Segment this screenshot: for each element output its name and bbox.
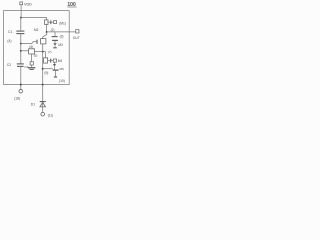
capacitor struct A lead bbox=[54, 32, 56, 36]
background bbox=[0, 0, 85, 120]
wire M4 down bbox=[31, 54, 33, 62]
capacitor C1 plate1 bbox=[16, 30, 24, 32]
svg-text:(11): (11) bbox=[48, 114, 53, 118]
svg-text:(M1): (M1) bbox=[59, 22, 66, 26]
terminal VDD square bbox=[20, 2, 23, 5]
wire M1 drain down bbox=[46, 25, 48, 33]
terminal circle bottom bbox=[41, 112, 45, 116]
wire M3 gate bbox=[21, 42, 37, 44]
plate B bbox=[53, 69, 59, 71]
wire left rail upper bbox=[20, 18, 22, 31]
minibar A bbox=[53, 47, 57, 49]
wire VDD lead bbox=[20, 5, 22, 18]
svg-text:(6): (6) bbox=[29, 45, 33, 49]
transistor M3 box bbox=[41, 39, 46, 44]
svg-text:(7): (7) bbox=[48, 50, 52, 54]
transistor M5 box bbox=[44, 58, 48, 63]
plate A2 bbox=[52, 39, 58, 41]
box M5b bbox=[53, 59, 56, 62]
wire left rail lower bbox=[20, 66, 22, 89]
svg-text:M4: M4 bbox=[58, 59, 63, 63]
wire B3 bbox=[54, 70, 56, 76]
transistor M4 box bbox=[29, 49, 35, 54]
diode D1 cathode bar bbox=[40, 101, 46, 103]
svg-text:VDD: VDD bbox=[24, 3, 32, 7]
arrow A bbox=[53, 43, 56, 46]
wire diode bottom bbox=[42, 107, 44, 113]
terminal OUT square bbox=[76, 30, 79, 33]
main vertical bbox=[42, 44, 44, 85]
svg-text:C2: C2 bbox=[24, 65, 28, 69]
ground bars bbox=[28, 67, 35, 69]
wire M5 gate leads bbox=[48, 60, 51, 62]
plate A1 bbox=[52, 36, 58, 38]
svg-text:M5: M5 bbox=[60, 67, 65, 71]
node top-rail junction bbox=[20, 17, 22, 19]
wire B2 bbox=[54, 67, 56, 70]
svg-text:(2): (2) bbox=[51, 28, 55, 32]
gate bar M1 bbox=[50, 20, 52, 24]
capacitor C1 plate2 bbox=[16, 33, 24, 35]
wire mid row bbox=[35, 51, 46, 53]
svg-text:(18): (18) bbox=[14, 97, 20, 101]
wire M1 to box bbox=[51, 21, 53, 23]
wire jog to M3 bbox=[43, 32, 47, 39]
border frame bbox=[4, 11, 70, 85]
node OUT junction bbox=[46, 31, 48, 33]
node left rail y43.6 bbox=[20, 43, 22, 45]
svg-text:(9): (9) bbox=[44, 71, 48, 75]
wire diode top bbox=[42, 85, 44, 107]
terminal circle left bbox=[19, 89, 23, 93]
box M4b bbox=[30, 62, 33, 65]
capacitor C2 plate2 bbox=[17, 65, 24, 67]
wire into M5 bbox=[45, 52, 47, 58]
wire M4 down2 bbox=[31, 65, 33, 67]
node left rail bottom bbox=[20, 84, 22, 86]
arrow B bbox=[53, 64, 56, 67]
svg-text:D1: D1 bbox=[31, 103, 35, 107]
svg-text:(4): (4) bbox=[7, 39, 11, 43]
svg-text:OUT: OUT bbox=[73, 36, 80, 40]
gate bar M5 bbox=[50, 59, 52, 63]
wire to M4 box bbox=[21, 50, 29, 52]
transistor M1 box bbox=[45, 20, 48, 25]
capacitor C2 plate1 bbox=[17, 63, 24, 65]
svg-text:(10): (10) bbox=[59, 79, 65, 83]
svg-text:(3): (3) bbox=[60, 35, 64, 39]
node left rail y50.8 bbox=[20, 50, 22, 52]
node x42.7 y51.6 bbox=[42, 51, 44, 53]
box M1b bbox=[54, 21, 57, 24]
minibar B bbox=[54, 76, 57, 78]
diode D1 triangle bbox=[40, 102, 46, 107]
gate bar M3 bbox=[36, 40, 38, 44]
wire A2 bbox=[54, 46, 56, 48]
svg-text:M3: M3 bbox=[58, 43, 63, 47]
svg-text:M2: M2 bbox=[34, 28, 39, 32]
node bottom rail diode bbox=[42, 84, 44, 86]
node x42.7 y68.7 bbox=[42, 68, 44, 70]
wire left rail mid bbox=[20, 34, 22, 64]
wire top rail bbox=[21, 18, 47, 20]
svg-text:C2: C2 bbox=[7, 63, 11, 67]
wire A bbox=[54, 41, 56, 43]
svg-text:C1: C1 bbox=[8, 30, 12, 34]
wire y68.7 bbox=[43, 68, 53, 70]
wire OUT bbox=[47, 31, 76, 33]
wire M1 gate lead bbox=[48, 21, 50, 23]
wire B lead bbox=[54, 62, 56, 64]
svg-text:(5): (5) bbox=[34, 54, 38, 58]
